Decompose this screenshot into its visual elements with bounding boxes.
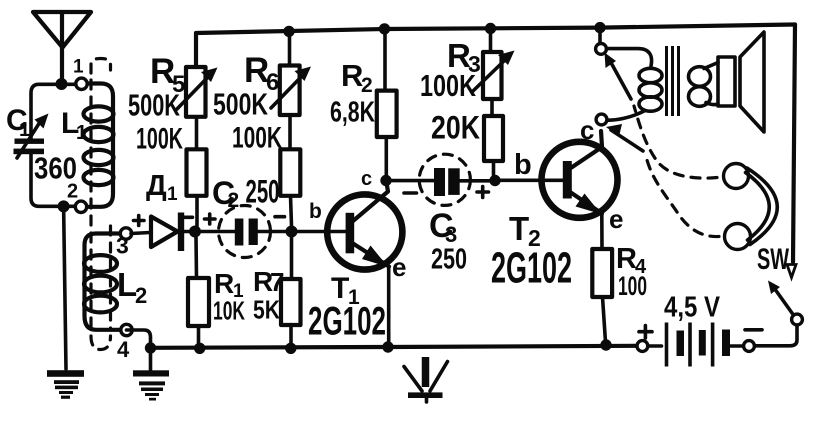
node antenna/tank junction: [56, 78, 68, 90]
ferrite rod (dashed): [91, 59, 111, 350]
wire C3 to T2 base: [500, 179, 563, 183]
svg-text:1: 1: [19, 119, 30, 141]
label L1: [61, 107, 87, 144]
junction rail/R3: [485, 23, 496, 34]
wire terminal4 to bottom rail: [127, 330, 151, 346]
plus mark battery: [639, 326, 652, 339]
svg-text:1: 1: [167, 184, 178, 205]
svg-text:10K: 10K: [213, 296, 245, 326]
minus mark after diode: [184, 216, 193, 220]
antenna: [33, 12, 91, 83]
junction rail/R2: [379, 23, 390, 34]
wire tank bottom to ground: [64, 206, 66, 369]
battery - terminal: [744, 341, 755, 352]
junction T1 emitter/rail: [382, 341, 393, 352]
capacitor C3: [391, 154, 490, 205]
resistor R6b 100K: [280, 149, 300, 226]
minus mark C2: [275, 215, 285, 219]
junction R1/rail: [194, 343, 205, 354]
svg-text:2: 2: [67, 181, 78, 203]
svg-text:4: 4: [117, 337, 130, 362]
resistor R7: [281, 237, 301, 343]
speaker: [718, 32, 764, 132]
label R6: [244, 51, 279, 96]
wire tank top: [31, 84, 76, 138]
junction detector node: [189, 226, 201, 238]
label R7: [253, 266, 284, 297]
minus mark battery: [745, 328, 762, 332]
svg-text:1: 1: [73, 57, 84, 78]
svg-text:Д: Д: [146, 170, 167, 202]
headphones: [724, 164, 778, 250]
svg-text:20K: 20K: [431, 110, 480, 146]
svg-text:500K: 500K: [128, 88, 180, 123]
minus mark C3: [404, 191, 417, 195]
junction R7/rail: [285, 343, 296, 354]
resistor R2: [377, 31, 397, 177]
terminal 3: [120, 228, 131, 239]
terminal 4: [121, 324, 132, 335]
label T1: [331, 272, 360, 309]
svg-text:b: b: [309, 200, 322, 223]
node tank bottom junction: [58, 200, 70, 212]
label R5: [150, 52, 185, 98]
resistor R1: [188, 237, 209, 343]
svg-text:e: e: [609, 204, 623, 234]
output terminal upper: [596, 44, 607, 55]
resistor R5b 100K: [187, 149, 207, 226]
svg-text:6,8K: 6,8K: [330, 97, 375, 129]
wire T1 emitter to rail: [387, 267, 391, 345]
svg-text:250: 250: [431, 244, 467, 276]
label L2: [117, 266, 147, 308]
label C2: [212, 175, 239, 212]
svg-text:2G102: 2G102: [308, 300, 386, 344]
svg-text:e: e: [392, 252, 406, 282]
svg-text:250: 250: [246, 174, 280, 210]
wire rail to upper output terminal: [598, 28, 602, 44]
potentiometer R3: [473, 29, 515, 117]
bottom rail wire: [151, 346, 638, 348]
plus mark C2: [205, 214, 216, 224]
svg-text:SW: SW: [757, 243, 789, 276]
transistor T2: [542, 131, 618, 218]
coil L1: [84, 84, 114, 207]
svg-text:2G102: 2G102: [491, 244, 572, 293]
plus mark before diode: [134, 216, 145, 226]
transformer primary: [607, 49, 663, 121]
svg-text:2: 2: [361, 74, 373, 97]
wire C2 to T1 base: [297, 230, 346, 234]
svg-text:500K: 500K: [213, 87, 268, 122]
label T2: [509, 210, 541, 251]
transformer secondary: [689, 63, 719, 107]
label C1: [6, 104, 30, 141]
svg-text:100K: 100K: [420, 68, 476, 103]
junction rail/R6: [283, 26, 294, 37]
svg-text:c: c: [580, 115, 594, 145]
coil L2: [84, 234, 121, 330]
svg-text:R: R: [214, 268, 234, 299]
svg-text:c: c: [361, 168, 372, 190]
chassis common symbol: [404, 357, 448, 402]
label C3: [429, 207, 457, 247]
junction C2/R6/R7 node: [286, 226, 298, 238]
svg-text:2: 2: [135, 283, 147, 308]
transformer core: [667, 46, 679, 116]
dashed link headphones to upper terminal: [605, 53, 718, 179]
plus mark C3: [477, 187, 489, 198]
capacitor C2: [201, 206, 286, 258]
output terminal lower: [596, 114, 607, 125]
battery + terminal: [637, 341, 648, 352]
svg-text:5K: 5K: [253, 295, 280, 325]
svg-text:100K: 100K: [232, 122, 282, 155]
top rail wire: [196, 25, 795, 68]
svg-text:1: 1: [76, 122, 87, 144]
ground (antenna circuit): [47, 370, 84, 399]
battery 4.5V: [648, 323, 744, 367]
svg-text:T: T: [509, 210, 529, 247]
junction R4/rail: [600, 339, 611, 350]
svg-text:4,5 V: 4,5 V: [664, 292, 721, 324]
transistor T1: [327, 183, 402, 270]
label D1: [146, 170, 178, 205]
potentiometer R5: [177, 40, 218, 149]
resistor R4: [592, 214, 612, 343]
svg-text:2: 2: [228, 189, 240, 212]
label R4: [616, 243, 647, 278]
right frame wire: [793, 25, 795, 263]
diode D1: [131, 213, 195, 252]
junction T1 collector node: [380, 175, 391, 186]
wire tank left lower: [31, 154, 75, 206]
label R1: [214, 268, 244, 302]
svg-text:3: 3: [116, 233, 129, 259]
svg-text:7: 7: [270, 267, 284, 297]
label R2: [341, 58, 373, 97]
svg-text:b: b: [514, 149, 532, 181]
terminal 1: [76, 78, 87, 89]
resistor R3b 20K: [484, 116, 503, 175]
terminal 2: [75, 201, 86, 212]
label R3: [447, 37, 481, 77]
svg-text:6: 6: [266, 69, 279, 96]
junction R3/T2 base node: [489, 175, 500, 186]
switch SW: [756, 265, 803, 346]
svg-text:100: 100: [618, 271, 647, 301]
junction terminal4 / rail / ground: [145, 342, 156, 353]
ground 2: [133, 348, 169, 401]
junction rail/output: [594, 22, 605, 33]
dashed link headphones to lower terminal: [606, 124, 719, 237]
potentiometer R6: [271, 31, 311, 149]
capacitor C1 (variable, 360): [14, 114, 49, 159]
svg-text:100K: 100K: [136, 123, 183, 156]
